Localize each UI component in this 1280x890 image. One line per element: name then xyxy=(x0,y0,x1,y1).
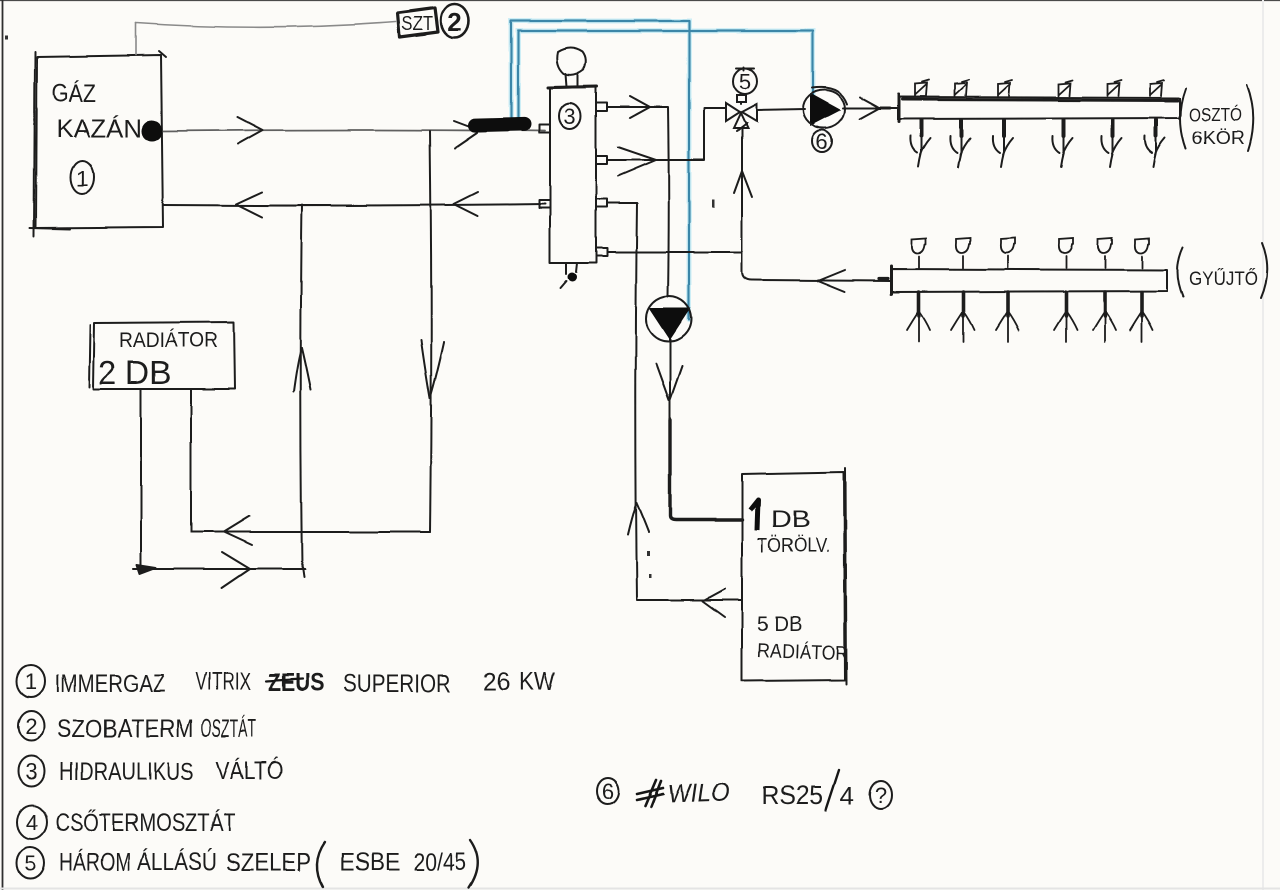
svg-text:IMMERGAZ: IMMERGAZ xyxy=(55,670,165,698)
svg-text:RADIÁTOR: RADIÁTOR xyxy=(119,329,218,352)
svg-text:OSZTÓ: OSZTÓ xyxy=(1189,104,1242,125)
svg-text:3: 3 xyxy=(25,759,37,784)
svg-text:VITRIX: VITRIX xyxy=(196,668,251,696)
svg-text:HÁROM: HÁROM xyxy=(59,848,131,877)
svg-text:CSŐTERMOSZTÁT: CSŐTERMOSZTÁT xyxy=(55,808,236,837)
svg-text:6: 6 xyxy=(602,779,614,804)
svg-text:ZEUS: ZEUS xyxy=(268,669,325,697)
svg-text:OSZTÁT: OSZTÁT xyxy=(201,714,256,743)
svg-text:GÁZ: GÁZ xyxy=(52,79,96,108)
svg-text:1: 1 xyxy=(25,669,37,694)
svg-text:20/45: 20/45 xyxy=(413,848,466,876)
svg-text:SZOBATERM: SZOBATERM xyxy=(57,715,194,743)
svg-text:?: ? xyxy=(875,783,887,808)
svg-text:TÖRÖLV.: TÖRÖLV. xyxy=(757,535,830,557)
svg-text:26: 26 xyxy=(483,668,510,696)
svg-text:RS25: RS25 xyxy=(761,780,823,810)
svg-text:HIDRAULIKUS: HIDRAULIKUS xyxy=(59,758,194,786)
svg-text:ESBE: ESBE xyxy=(340,848,400,876)
svg-text:GYŰJTŐ: GYŰJTŐ xyxy=(1189,268,1258,290)
svg-text:KW: KW xyxy=(519,668,555,696)
svg-text:6: 6 xyxy=(816,129,828,154)
svg-text:DB: DB xyxy=(771,506,811,533)
svg-text:5 DB: 5 DB xyxy=(757,613,802,636)
svg-text:SZT: SZT xyxy=(402,14,433,35)
svg-text:2: 2 xyxy=(25,714,37,739)
svg-text:VÁLTÓ: VÁLTÓ xyxy=(216,756,283,785)
svg-text:4: 4 xyxy=(26,810,38,835)
svg-text:3: 3 xyxy=(564,104,576,129)
svg-text:SZELEP: SZELEP xyxy=(226,849,311,877)
svg-text:SUPERIOR: SUPERIOR xyxy=(343,670,451,698)
svg-text:WILO: WILO xyxy=(667,777,730,809)
svg-text:ÁLLÁSÚ: ÁLLÁSÚ xyxy=(137,847,217,876)
svg-text:RADIÁTOR: RADIÁTOR xyxy=(757,639,849,665)
svg-text:1: 1 xyxy=(76,166,88,191)
svg-text:2: 2 xyxy=(448,7,462,37)
svg-text:5: 5 xyxy=(24,851,36,876)
svg-text:KAZÁN: KAZÁN xyxy=(56,114,142,143)
svg-text:2 DB: 2 DB xyxy=(98,354,171,391)
svg-text:5: 5 xyxy=(739,69,751,94)
svg-text:4: 4 xyxy=(840,781,854,811)
svg-text:6KÖR: 6KÖR xyxy=(1192,128,1245,148)
